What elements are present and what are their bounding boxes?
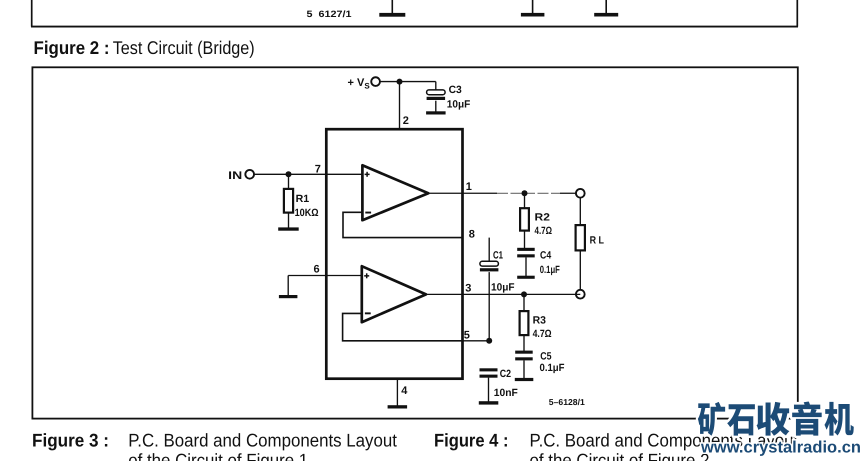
- ground pin 4: [388, 405, 408, 408]
- svg-text:10nF: 10nF: [494, 387, 519, 399]
- svg-text:Figure 2 :: Figure 2 :: [34, 37, 110, 58]
- svg-text:0.1μF: 0.1μF: [540, 264, 560, 276]
- label S-6128/1 (figure 2 plate number): [549, 397, 585, 407]
- ground pin 6: [279, 295, 298, 298]
- wire pin 2 (Vs node into IC): [399, 82, 401, 130]
- caption: Figure 3: [32, 429, 397, 461]
- svg-text:+ VS: + VS: [348, 77, 371, 91]
- ground (figure 1, middle): [521, 0, 545, 17]
- resistor R3: [520, 294, 529, 351]
- svg-text:R3: R3: [533, 315, 547, 327]
- label C3: [449, 84, 462, 96]
- junction at Vs node: [397, 79, 403, 85]
- svg-text:5–6128/1: 5–6128/1: [549, 397, 585, 407]
- figure 2 frame: [32, 67, 797, 418]
- junction at pin3/R3: [521, 291, 527, 297]
- pin number 3: [465, 282, 471, 294]
- label C1: [493, 250, 503, 262]
- label 10uF (C1): [491, 281, 515, 293]
- ground C2: [479, 401, 499, 404]
- svg-text:IN: IN: [228, 170, 242, 182]
- ground C5: [515, 378, 534, 381]
- svg-text:5 6127/1: 5 6127/1: [307, 9, 352, 19]
- wire pin 3 output: [426, 293, 580, 295]
- svg-text:6: 6: [314, 264, 320, 276]
- capacitor C1: [480, 238, 499, 341]
- svg-text:2: 2: [403, 115, 409, 127]
- pin number 2: [403, 115, 409, 127]
- caption: Figure 4: [434, 429, 798, 461]
- terminal IN: [245, 170, 254, 179]
- svg-text:Test Circuit (Bridge): Test Circuit (Bridge): [113, 37, 255, 58]
- svg-text:www.crystalradio.cn: www.crystalradio.cn: [700, 439, 861, 457]
- ground C3: [426, 111, 446, 114]
- resistor RL: [576, 197, 585, 290]
- op-amp IC outline: [326, 129, 462, 379]
- label 0.1uF (C4): [540, 264, 560, 276]
- junction at R1: [286, 171, 292, 177]
- wire Vs node to C3: [400, 82, 436, 91]
- wire A1 inverting feedback (pin 8 loop): [343, 212, 463, 237]
- capacitor C3: [427, 90, 446, 112]
- junction at pin5/C1/C2: [486, 338, 492, 344]
- resistor R2: [520, 193, 529, 248]
- label C4: [540, 249, 551, 261]
- caption: Figure 2 : Test Circuit (Bridge): [34, 37, 255, 58]
- label 4.7 ohm (R3): [533, 328, 552, 340]
- terminal RL bottom: [576, 290, 585, 299]
- label 4.7 ohm (R2): [535, 225, 553, 237]
- capacitor C4: [517, 248, 535, 276]
- svg-text:10μF: 10μF: [447, 99, 471, 111]
- svg-text:C4: C4: [540, 249, 551, 261]
- wire IN to pin 7: [254, 173, 363, 175]
- svg-text:4.7Ω: 4.7Ω: [533, 328, 552, 340]
- label 10nF (C2): [494, 387, 519, 399]
- ground R1: [278, 227, 299, 230]
- svg-text:7: 7: [315, 163, 321, 175]
- label R1: [296, 193, 310, 205]
- svg-text:C5: C5: [540, 350, 551, 362]
- svg-text:4.7Ω: 4.7Ω: [535, 225, 553, 237]
- svg-text:of the Circuit of Figure 1: of the Circuit of Figure 1: [128, 449, 308, 461]
- pin number 6: [314, 264, 320, 276]
- resistor R1: [284, 174, 293, 228]
- pin number 7: [315, 163, 321, 175]
- pin number 1: [466, 181, 472, 193]
- svg-text:R2: R2: [535, 212, 551, 224]
- wire pin 4: [396, 379, 398, 406]
- ground (figure 1, left): [379, 0, 405, 17]
- svg-text:Figure 4 :: Figure 4 :: [434, 429, 509, 450]
- junction at pin1/R2: [522, 190, 528, 196]
- label +Vs: [348, 77, 371, 91]
- svg-text:R1: R1: [296, 193, 310, 205]
- svg-text:4: 4: [401, 385, 408, 397]
- label C2: [500, 368, 511, 380]
- pin number 4: [401, 385, 408, 397]
- svg-text:P.C. Board and Components Layo: P.C. Board and Components Layout: [128, 429, 397, 450]
- op-amp A1 (upper half of IC): [362, 165, 428, 220]
- wire pin 5 to C1/C2 node: [463, 340, 489, 342]
- label RL: [590, 234, 605, 246]
- wire A2 inverting feedback (pin 5 loop): [343, 313, 463, 340]
- svg-text:10μF: 10μF: [491, 281, 515, 293]
- svg-text:C2: C2: [500, 368, 511, 380]
- label 5 6127/1 (figure 1 plate number): [307, 9, 352, 19]
- ground (figure 1, right): [594, 0, 618, 17]
- ground C4: [517, 276, 535, 279]
- terminal RL top: [576, 189, 585, 198]
- wire +Vs to junction: [380, 81, 400, 83]
- svg-text:C3: C3: [449, 84, 462, 96]
- label C5: [540, 350, 551, 362]
- op-amp A2 (lower half of IC): [362, 266, 426, 322]
- label R3: [533, 315, 547, 327]
- wire pin 6: [288, 276, 362, 296]
- svg-text:3: 3: [465, 282, 471, 294]
- terminal +Vs: [371, 77, 380, 86]
- figure 1 frame (bottom of previous figure): [31, 0, 798, 27]
- label IN: [228, 170, 242, 182]
- label 10K ohm (R1): [295, 207, 319, 219]
- svg-text:8: 8: [469, 228, 475, 240]
- svg-text:Figure 3 :: Figure 3 :: [32, 429, 109, 450]
- svg-text:R L: R L: [590, 234, 605, 246]
- pin number 8: [469, 228, 475, 240]
- label R2: [535, 212, 551, 224]
- label 10uF (C3): [447, 99, 471, 111]
- svg-text:0.1μF: 0.1μF: [540, 362, 566, 374]
- pin number 5: [464, 329, 470, 341]
- svg-text:1: 1: [466, 181, 472, 193]
- wire pin 1 output: [428, 192, 580, 194]
- svg-text:5: 5: [464, 329, 470, 341]
- svg-text:of the Circuit of Figure 2: of the Circuit of Figure 2: [530, 449, 710, 461]
- svg-text:10KΩ: 10KΩ: [295, 207, 319, 219]
- label 0.1uF (C5): [540, 362, 566, 374]
- svg-text:C1: C1: [493, 250, 503, 262]
- capacitor C5: [515, 351, 533, 379]
- capacitor C2: [480, 368, 498, 401]
